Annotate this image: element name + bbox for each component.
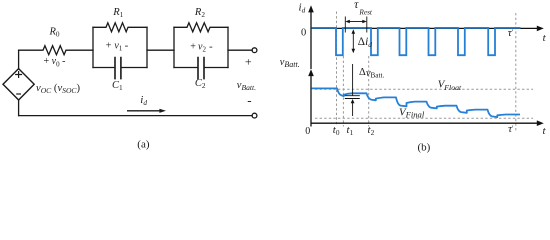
svg-text:(b): (b): [418, 142, 431, 154]
svg-text:-: -: [247, 93, 251, 108]
svg-text:v1​: v1​: [114, 41, 122, 53]
svg-text:+ v0​ -: + v0​ -: [44, 56, 66, 68]
svg-text:0: 0: [301, 28, 306, 39]
svg-text:+: +: [245, 54, 252, 68]
svg-text:0: 0: [305, 126, 310, 137]
svg-text:-: -: [125, 40, 129, 52]
svg-text:-: -: [209, 40, 213, 52]
svg-text:+: +: [190, 41, 196, 52]
svg-text:(a): (a): [137, 138, 150, 150]
svg-text:Rest​: Rest​: [358, 8, 373, 17]
svg-text:+: +: [106, 41, 112, 52]
